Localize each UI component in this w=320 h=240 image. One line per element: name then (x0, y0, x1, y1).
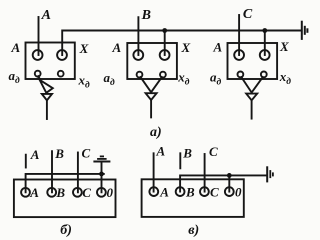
wire: phase C lead-in (238, 15, 240, 55)
terminal B of b (47, 188, 56, 197)
wire: phase B riser b (51, 151, 53, 192)
wire: bus-to-A corner b (26, 174, 104, 192)
terminal 0 of v (225, 187, 234, 196)
wire: bus-to-B corner v (180, 175, 267, 191)
svg-text:А: А (41, 8, 51, 23)
svg-text:А: А (11, 40, 21, 55)
svg-text:0: 0 (107, 185, 114, 200)
arrester F1 gap triangle (42, 94, 52, 100)
svg-text:В: В (182, 146, 192, 161)
wire: F3 down lead (251, 100, 253, 118)
terminal X of T3 (260, 50, 270, 60)
terminal A of T1 (33, 50, 43, 60)
winding box v (142, 179, 244, 217)
wire: neutral riser v (228, 175, 230, 191)
svg-text:в): в) (188, 223, 199, 238)
arrester F3 V-leads (241, 77, 262, 92)
terminal X of T1 (57, 50, 67, 60)
svg-text:А: А (30, 147, 40, 162)
arrester F1 arrow (40, 80, 53, 93)
ground symbol b (earth above) (94, 156, 109, 161)
wire: F2 down lead (150, 100, 152, 117)
terminal 0 of b (97, 188, 106, 197)
ground symbol top right (302, 22, 308, 39)
wire: F1 down lead (46, 100, 48, 119)
terminal a_d of T1 (35, 71, 41, 77)
terminal A of v (149, 187, 158, 196)
svg-text:б): б) (60, 223, 72, 238)
wire: top ground bus (62, 31, 301, 56)
svg-text:А: А (29, 185, 39, 200)
wire: phase C riser v (204, 154, 206, 192)
terminal C of v (200, 187, 209, 196)
terminal A of T2 (133, 50, 143, 60)
junction dot at box2 X riser (162, 28, 167, 33)
wire: phase C riser b (77, 153, 79, 193)
svg-text:X: X (181, 40, 191, 55)
wire: phase A stub b (25, 155, 27, 168)
transformer T1 box (26, 43, 75, 80)
junction dot at box3 X riser (262, 28, 267, 33)
junction dot b (99, 172, 104, 177)
terminal x_d of T2 (160, 72, 166, 78)
transformer T2 box (127, 43, 177, 79)
wire: phase A riser v (153, 153, 155, 191)
terminal X of T2 (160, 50, 170, 60)
svg-text:В: В (54, 146, 64, 161)
svg-text:В: В (141, 8, 151, 23)
terminal a_d of T3 (238, 72, 244, 78)
terminal x_d of T3 (261, 72, 267, 78)
terminal C of b (73, 188, 82, 197)
svg-text:С: С (209, 144, 218, 159)
terminal A of b (21, 188, 30, 197)
terminal B of v (176, 187, 185, 196)
svg-text:А: А (213, 40, 223, 55)
terminal A of T3 (234, 50, 244, 60)
winding box b (14, 180, 116, 218)
transformer T3 box (228, 43, 278, 79)
wire: neutral riser b (101, 162, 103, 192)
arrester F2 gap triangle (146, 93, 157, 100)
svg-text:С: С (82, 185, 91, 200)
wire: X riser of box 3 (264, 31, 266, 56)
svg-text:В: В (185, 185, 195, 200)
svg-text:С: С (243, 7, 253, 22)
svg-text:А: А (156, 144, 166, 159)
svg-text:0: 0 (235, 185, 242, 200)
terminal x_d of T1 (58, 71, 64, 77)
svg-text:а): а) (150, 125, 162, 140)
junction dot v (227, 173, 232, 178)
svg-text:А: А (112, 40, 122, 55)
terminal a_d of T2 (137, 72, 143, 78)
svg-text:X: X (279, 39, 289, 54)
wire: X riser of box 2 (164, 31, 166, 56)
ground symbol v (right) (267, 167, 273, 181)
svg-text:С: С (82, 146, 91, 161)
svg-text:А: А (159, 185, 169, 200)
wire: phase B stub v (179, 153, 181, 168)
arrester F3 gap triangle (246, 94, 257, 101)
svg-text:С: С (210, 185, 219, 200)
wire: a_d to arrester link (38, 76, 39, 78)
arrester F2 V-leads (141, 77, 162, 92)
wire: phase B lead-in (137, 17, 139, 55)
svg-text:В: В (55, 185, 65, 200)
svg-text:X: X (79, 41, 89, 56)
wire: phase A lead-in (38, 17, 40, 55)
